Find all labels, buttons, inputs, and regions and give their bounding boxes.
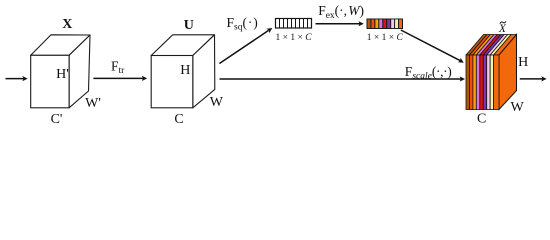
svg-text:W: W [510,100,524,115]
svg-text:H: H [518,55,528,70]
svg-text:C: C [174,112,183,127]
cube U right face [193,35,215,108]
svg-text:C': C' [51,112,63,127]
cube X~ right face [499,35,517,110]
arrow F_ex [316,21,364,26]
svg-text:U: U [184,18,194,33]
cube X right face [69,35,90,108]
svg-text:H': H' [56,67,69,82]
svg-text:W: W [210,95,224,110]
svg-text:H: H [180,63,190,78]
excitation vector 1x1xC (colored bar) [367,19,404,30]
arrow F_scale [220,76,466,81]
cube X~ top face stripes [466,35,517,56]
squeeze vector 1x1xC (white bar) [276,19,312,29]
cube X front face [31,55,69,108]
svg-text:X: X [498,23,507,35]
svg-text:C: C [477,112,486,127]
svg-text:W': W' [85,96,101,111]
cube U top face [151,35,214,56]
svg-text:1 × 1 × C: 1 × 1 × C [275,33,312,43]
svg-text:X: X [62,17,72,32]
svg-text:1 × 1 × C: 1 × 1 × C [367,33,404,43]
arrow F_sq diagonal [219,26,273,64]
arrow colored bar to cube X~ [401,30,465,65]
cube X top face [31,35,90,56]
arrow F_tr [93,76,147,81]
svg-text:Fsq(·): Fsq(·) [227,15,259,32]
output arrow [520,76,547,81]
cube U front face [151,56,193,108]
cube X~ front face stripes [466,55,499,110]
input arrow [6,76,28,81]
